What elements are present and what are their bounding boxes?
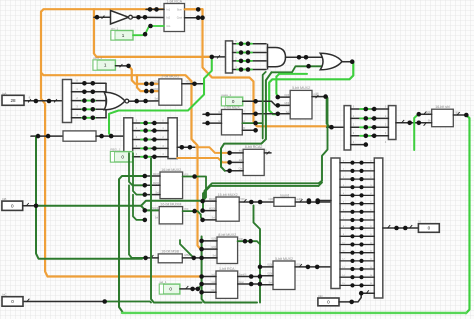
wire orange cmd vertical x94: [94, 9, 212, 57]
wire orange tap to MUX In2: [137, 75, 159, 91]
wire dgreen horizontal y205: [36, 201, 203, 206]
node U8 out: [192, 174, 197, 179]
input constant pass_1: [222, 93, 243, 106]
svg-text:1-bit RCA: 1-bit RCA: [166, 0, 182, 3]
wire dgreen vertical x201: [202, 237, 257, 303]
mux U8 16-bit MUX2: [160, 168, 183, 199]
wire S3 bit2 green: [237, 60, 252, 62]
wire S4 pair bit1: [351, 117, 389, 119]
node S4b out junctions: [407, 121, 421, 126]
svg-text:M1[0]: M1[0]: [152, 207, 158, 210]
wire S3 input: [212, 56, 226, 58]
node MUX3 out: [323, 94, 328, 99]
wire RCA In1 stub: [146, 8, 164, 10]
wire S4 pair bit3: [351, 135, 389, 137]
wire S2 pair bit3: [133, 147, 168, 149]
wire orange feedback loop top/left (Sum net): [41, 9, 203, 276]
bus slash U10 out: [244, 199, 247, 202]
svg-text:1: 1: [104, 63, 107, 68]
wire NOT output to RCA In2: [133, 16, 165, 18]
wire bgreen drop to In1: [276, 77, 277, 97]
wire S3 bit3 green: [237, 69, 252, 71]
node shl In1: [417, 112, 422, 117]
bus slash U15 out: [299, 264, 302, 267]
node U10 In2: [200, 208, 205, 213]
wire S5 pair bit14: [340, 276, 374, 278]
node S5 bit9 junctions: [350, 234, 363, 238]
wire S4 bit1 green: [360, 117, 370, 119]
node S5 bit13 junctions: [350, 267, 363, 271]
wire U14 In1 stub: [202, 276, 216, 278]
input pin InC value 0: [2, 293, 23, 307]
mux U6 5-bit MUX2: [290, 86, 312, 119]
extender U3 body: [63, 131, 96, 141]
node S3 bit0 junctions: [239, 41, 251, 46]
bus slash RCA2 out: [267, 151, 270, 154]
node U13 In2: [199, 247, 204, 252]
svg-text:8-bit MUX2: 8-bit MUX2: [218, 233, 236, 237]
node U10 In1: [200, 199, 205, 204]
bus slash pinD entry: [366, 290, 369, 293]
node OR out: [350, 59, 355, 64]
node MSB out junctions: [192, 256, 204, 261]
svg-text:M1[0]: M1[0]: [209, 198, 215, 201]
svg-text:Sum[0]: Sum[0]: [239, 273, 247, 276]
wire dgreen bus x133: [133, 153, 145, 194]
wire S2b bus out: [177, 146, 196, 148]
wire dgreen bevel to Cin: [221, 167, 225, 171]
input constant cmd_1: [93, 56, 115, 70]
svg-text:Sel: Sel: [213, 255, 217, 258]
node RCA2 Cin: [227, 169, 232, 174]
node NOT output junctions: [136, 15, 147, 20]
svg-text:Cout: Cout: [239, 281, 244, 284]
node S2 bit3 junctions: [143, 146, 156, 151]
splitter S4b body: [388, 106, 396, 140]
node MUX3 In3: [276, 112, 281, 117]
wire S2 bit3 green: [141, 147, 150, 149]
wire MUX5 out1 to MUX3 In3: [242, 113, 290, 115]
node S5 bit15 junctions: [350, 283, 363, 287]
node bottom pin wire: [102, 299, 107, 304]
svg-text:in[0]: in[0]: [268, 198, 273, 201]
bus slash round out: [300, 199, 303, 202]
wire dgreen x260 bus: [259, 264, 261, 303]
svg-text:Y[0]: Y[0]: [313, 93, 318, 96]
splitter S4a body: [344, 106, 351, 150]
wire RCA Cout out: [185, 17, 203, 19]
adder U14 1-bit RCA: [216, 267, 238, 299]
svg-text:Sel: Sel: [212, 217, 216, 220]
wire NOR out to MUX: [129, 100, 159, 102]
wire shl out: [453, 114, 466, 116]
node S5 bit3 junctions: [350, 185, 363, 189]
bus slash S5b out a: [387, 225, 390, 228]
node U8 In3: [143, 192, 148, 197]
svg-text:I1[0]: I1[0]: [285, 94, 290, 97]
node RCA2 In2: [227, 160, 232, 165]
node S1 bit3 junctions: [82, 107, 95, 112]
node S2 bit1 junctions: [143, 128, 156, 133]
wire splitter S1 out bit4 green seg: [82, 117, 95, 119]
wire S2 pair bit0: [133, 122, 168, 124]
nor gate NOR1: [104, 83, 129, 119]
svg-text:I2[0]: I2[0]: [267, 273, 272, 276]
wire orange branch y75 to right: [41, 73, 202, 249]
node U9 In1: [143, 208, 148, 213]
svg-text:0: 0: [428, 226, 431, 231]
svg-text:I2[0]: I2[0]: [153, 88, 158, 91]
splitter S3 body: [226, 41, 233, 73]
wire green shl-out down right edge: [466, 115, 470, 313]
wire pass to MUX3 In2: [256, 101, 291, 105]
wire AND out to OR: [286, 56, 323, 58]
node sel out junctions: [190, 287, 200, 292]
svg-text:Y[0]: Y[0]: [454, 112, 459, 115]
inverter gate NOT1: [111, 11, 133, 25]
wire cin to RCA Cin: [133, 26, 164, 35]
wire RCA2 In2 stub: [230, 161, 244, 163]
wire MSB in stub: [146, 257, 159, 259]
wire dgreen lineB hook: [319, 183, 323, 186]
svg-text:Sel: Sel: [155, 98, 159, 101]
node U9 In2: [143, 218, 148, 223]
node RCA2 In1: [227, 151, 232, 156]
svg-text:Sel: Sel: [286, 111, 290, 114]
wire REG green seg: [141, 156, 150, 158]
wire S4 bit3 green: [360, 135, 370, 137]
mux U10 15-bit MUX2: [216, 193, 239, 221]
wire S5 pair bit1: [340, 170, 374, 172]
bus slash pin28: [28, 96, 31, 103]
bus slash sel: [186, 286, 189, 289]
wire dgreen pinC to y302: [105, 302, 151, 303]
node S5 bit1 junctions: [350, 169, 363, 173]
node S2 bit0 junctions: [143, 121, 156, 126]
bus slash S3: [217, 55, 220, 58]
svg-text:0: 0: [327, 300, 330, 305]
bus slash shl In1: [424, 111, 427, 114]
wire U13 In2 stub: [202, 248, 217, 250]
mux U2 2-bit MUX2: [159, 75, 182, 106]
bus slash shl In2: [424, 123, 427, 126]
node U9 out: [192, 209, 197, 214]
splitter S2a body: [124, 118, 133, 153]
svg-text:5-bit MUX2: 5-bit MUX2: [275, 257, 293, 261]
wire S5b output: [383, 227, 419, 229]
adder U1 1-bit RCA: [164, 0, 185, 32]
wire U15 In2 stub: [260, 275, 273, 277]
bus slash MSB in: [151, 255, 154, 258]
wire U9 out: [183, 211, 203, 219]
wire dgreen elbow from lineA: [254, 218, 261, 244]
wire U8 In1 stub: [145, 175, 160, 177]
wire S5 pair bit9: [340, 235, 374, 237]
wire RCA2 out: [264, 152, 271, 154]
svg-text:5-bit MUX2: 5-bit MUX2: [292, 86, 310, 90]
node S5 bit7 junctions: [350, 218, 363, 222]
node S4 bit0 junctions: [364, 107, 377, 112]
wire splitter S1 out bit3: [72, 108, 107, 110]
bus slash pin28 b: [54, 99, 57, 102]
wire MUX3 In1 stub: [278, 96, 290, 98]
wire dgreen x129 down to MSB: [129, 185, 146, 258]
svg-text:Sum: Sum: [177, 8, 182, 11]
wire S3 out bit0: [233, 43, 266, 45]
bus slash S4b out: [401, 120, 404, 123]
splitter S1 body: [63, 80, 72, 123]
wire splitter S1 out bit2 green seg: [82, 100, 95, 102]
node U10 out junctions: [249, 200, 262, 205]
wire S5 pair bit2: [340, 178, 374, 180]
svg-text:16-bit MUXM: 16-bit MUXM: [160, 202, 181, 206]
input pin InA value 28: [2, 91, 24, 105]
splitter S2b body: [168, 118, 177, 159]
wire U10 out to round: [239, 201, 274, 203]
node S3 bit3 junctions: [239, 67, 251, 72]
svg-text:0: 0: [11, 203, 14, 208]
svg-text:15-bit MUX2: 15-bit MUX2: [218, 193, 238, 197]
node MUX3 In2: [276, 103, 281, 108]
wire U10 In3 stub: [203, 219, 216, 221]
svg-text:Y[0]: Y[0]: [184, 208, 189, 211]
node MUX5 In1: [205, 112, 210, 117]
svg-text:0: 0: [11, 299, 14, 304]
wire U14 Sum out: [238, 276, 260, 278]
wire U14 Cin stub: [202, 291, 216, 293]
wire pinB out: [23, 205, 36, 207]
register probe REG_1: [111, 148, 133, 162]
wire cmd output: [115, 65, 128, 67]
mux U15 5-bit MUX2: [273, 257, 295, 290]
wire U15 In1 stub: [260, 266, 273, 268]
wire dgreen fork down to MUXM: [141, 206, 159, 211]
node S5 bit0 junctions: [350, 161, 363, 165]
svg-text:round: round: [280, 193, 289, 197]
wire S5 pair bit12: [340, 260, 374, 262]
node cin wire: [143, 32, 148, 37]
node U14 Cin: [199, 290, 204, 295]
wire S2 bit0 green: [141, 122, 150, 124]
wire shl In2 stub: [419, 122, 432, 124]
node S4 bit2 junctions: [364, 125, 377, 130]
wire MUX5 In2 stub: [203, 122, 222, 124]
node MSB in: [143, 256, 148, 261]
node S2 bit2 junctions: [143, 137, 156, 142]
wire U10 In2 stub: [203, 210, 216, 212]
wire sel out: [180, 288, 198, 290]
wire OR output: [342, 61, 352, 63]
node U8 In1: [143, 174, 148, 179]
input pin InB value 0: [2, 197, 23, 210]
wire green OR-out feedback: [269, 62, 353, 114]
bus slash MUX3 out: [315, 91, 319, 98]
svg-text:1-bit RCA: 1-bit RCA: [219, 267, 235, 271]
wire S5 pair bit11: [340, 252, 374, 254]
wire green MUX3-out down to shl splitter: [326, 97, 332, 128]
svg-text:0: 0: [169, 287, 172, 292]
svg-text:8-bit RCA2: 8-bit RCA2: [245, 145, 263, 149]
node MUX3 In1: [276, 95, 281, 100]
mux U13 8-bit MUX2: [217, 233, 238, 264]
svg-text:0: 0: [232, 99, 235, 104]
svg-text:I1[0]: I1[0]: [153, 81, 158, 84]
wire dgreen x133 down to MUXM In2: [133, 195, 145, 220]
svg-text:I1[0]: I1[0]: [211, 238, 216, 241]
node U14 In2: [199, 282, 204, 287]
wire splitter S1 out bit1: [72, 91, 107, 93]
wire dgreen bus x119 big loop: [119, 176, 145, 313]
node MUX5 out2: [253, 121, 258, 126]
svg-text:Cout: Cout: [177, 16, 183, 19]
wire U8 In3 stub: [145, 194, 160, 196]
node MUX In2 junctions: [144, 89, 154, 94]
node S5 bit8 junctions: [350, 226, 363, 230]
node U10 In3: [200, 218, 205, 223]
node MUX out: [192, 82, 197, 87]
svg-text:16-bit shl: 16-bit shl: [435, 105, 450, 109]
node S2b out junctions: [180, 145, 193, 150]
svg-text:I2[0]: I2[0]: [211, 246, 216, 249]
wire S3 out bit3: [233, 69, 266, 71]
wire MUX5 In1 stub: [203, 113, 222, 115]
wire RCA Sum out: [185, 8, 203, 10]
wire S5 pair bit3: [340, 186, 374, 188]
wire S2 bit2 green: [141, 139, 150, 141]
svg-text:I2[0]: I2[0]: [285, 102, 290, 105]
node NOT input: [95, 15, 100, 20]
bus slash bottom pin: [27, 299, 30, 302]
wire pinD to splitter: [339, 301, 352, 303]
wire U10 In1 stub: [203, 200, 216, 202]
wire dgreen lineA from shl splitter: [203, 97, 328, 202]
node pass out: [253, 99, 258, 104]
node round out junctions: [307, 200, 320, 205]
node U15 In1: [258, 265, 263, 270]
wire splitter S1 out bit3 green seg: [82, 108, 95, 110]
wire U14 In2 stub: [202, 283, 216, 285]
wire S3 out bit2: [233, 60, 266, 62]
node S5 bit6 junctions: [350, 210, 363, 214]
wire splitter S1 out bit0: [72, 82, 107, 84]
adder U4 8-bit RCA2: [243, 145, 264, 175]
bus slash pinB: [26, 203, 29, 206]
node pinD entry: [359, 291, 364, 296]
node pinB: [34, 204, 39, 209]
wire S3 bit1 green: [237, 52, 252, 54]
svg-text:Sel: Sel: [156, 191, 160, 194]
wire orange to RCA2 In2: [177, 158, 229, 162]
wire orange cmd to MUX In1: [129, 66, 159, 84]
wire S5 pair bit5: [340, 203, 374, 205]
node S5b out junctions: [394, 226, 407, 231]
node S5 bit14 junctions: [350, 275, 363, 279]
wire orange into S3: [203, 56, 212, 58]
wire orange S2b to RCA2 In1: [196, 147, 230, 153]
msb U12 16-bit MSB: [158, 250, 182, 263]
wire S2 pair bit1: [133, 130, 168, 132]
node U13 In1: [199, 239, 204, 244]
node Cout end: [200, 15, 205, 20]
wire U15 In3 stub: [260, 284, 273, 286]
wire dgreen lineA down x253: [253, 206, 255, 219]
wire sel diag to U14: [198, 285, 202, 289]
wire OR second input: [272, 66, 323, 72]
input pin InD value 0: [318, 294, 339, 306]
node S4 bit1 junctions: [364, 116, 377, 121]
node S5a in junctions: [307, 198, 320, 203]
node RCA Sum: [196, 7, 201, 12]
wire dgreen vertical x262: [263, 72, 266, 139]
wire dgreen bracket over RCA2: [221, 72, 272, 167]
wire U8 In2 stub: [145, 184, 160, 186]
node S4 bit3 junctions: [364, 134, 377, 139]
node S1 bit0 junctions: [82, 81, 95, 86]
wire bgreen elbow: [276, 74, 279, 77]
wire U14 Cout out: [238, 283, 260, 285]
node U14 In1: [199, 274, 204, 279]
input constant cin_1: [111, 27, 133, 41]
node S3 bit2 junctions: [239, 59, 251, 64]
wire shl splitter input: [327, 126, 344, 128]
wire S2 bit1 green: [141, 130, 150, 132]
node S5 bit2 junctions: [350, 177, 363, 181]
wire S3 bit0 green: [237, 43, 252, 45]
svg-text:I1[0]: I1[0]: [267, 264, 272, 267]
wire bottom pin wire: [23, 301, 105, 303]
wire U15 out: [295, 266, 331, 268]
svg-text:In[0]: In[0]: [426, 111, 431, 114]
wire RCA2 In1 stub: [230, 152, 244, 154]
wire orange Sum down x202: [203, 9, 332, 126]
node S5 bit4 junctions: [350, 193, 363, 197]
node S5 bit10 junctions: [350, 242, 363, 246]
wire S5 pair bit6: [340, 211, 374, 213]
svg-text:Sel: Sel: [155, 217, 159, 220]
bus slash S5b out b: [409, 225, 412, 228]
wire bottom light green long wire: [122, 312, 466, 314]
wire U8 out: [183, 177, 206, 202]
node MUX5 out3: [253, 128, 258, 133]
output pin OutN value 0: [418, 220, 439, 233]
svg-text:16-bit MSB: 16-bit MSB: [161, 250, 179, 254]
wire U13 out: [238, 241, 260, 264]
svg-text:Cin: Cin: [167, 25, 171, 28]
mux U9 16-bit MUXM: [159, 202, 182, 224]
svg-text:Y[0]: Y[0]: [296, 264, 301, 267]
node S5 bit11 junctions: [350, 251, 363, 255]
and gate AND1: [268, 44, 286, 70]
node extender in junctions: [36, 134, 51, 139]
wire S4 bit0 green: [360, 108, 370, 110]
rounder U11 round: [274, 193, 295, 206]
node splitter3 input: [210, 55, 215, 60]
svg-text:out[0]: out[0]: [296, 198, 302, 201]
svg-text:0: 0: [121, 154, 124, 159]
wire shl In1 stub: [419, 113, 432, 115]
node AND out junctions: [297, 55, 309, 60]
wire pinD curve up: [352, 293, 375, 302]
node U8 In2: [143, 183, 148, 188]
shifter U7 16-bit shl: [432, 105, 454, 127]
wire S5 pair bit4: [340, 194, 374, 196]
node S2a in junctions: [99, 134, 113, 139]
wire REG to S2b: [133, 156, 168, 158]
node S1 bit1 junctions: [82, 90, 95, 95]
node REG wire junctions: [143, 155, 156, 160]
node OR in2: [306, 64, 311, 69]
bus slash shl out: [457, 112, 460, 115]
